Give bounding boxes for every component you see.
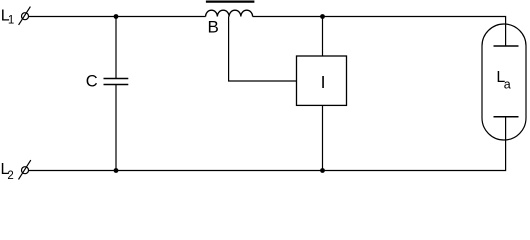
svg-text:L1: L1 (1, 7, 15, 26)
svg-text:L2: L2 (1, 161, 14, 182)
svg-text:C: C (86, 73, 98, 91)
svg-text:La: La (496, 69, 510, 92)
svg-text:I: I (321, 72, 326, 92)
svg-text:B: B (208, 18, 219, 37)
